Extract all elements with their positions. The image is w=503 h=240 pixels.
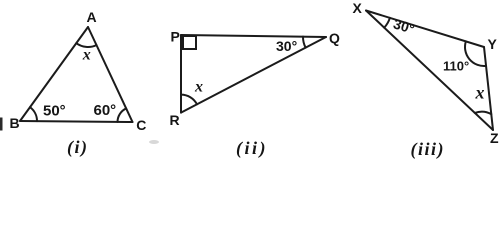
angle arc at Q [303,37,306,48]
svg-text:30°: 30° [391,15,416,36]
triangle (ii) side PQ [181,35,326,37]
svg-text:Z: Z [490,130,499,146]
scan artifact smudge right of caption (i) [149,140,159,144]
svg-text:x: x [82,47,91,64]
svg-text:60°: 60° [94,102,117,119]
svg-text:110°: 110° [443,59,469,74]
svg-text:(iii): (iii) [411,139,446,160]
svg-text:(i): (i) [67,137,89,158]
svg-text:P: P [171,29,180,45]
triangle (iii) side YZ [484,47,493,130]
svg-text:Q: Q [329,30,340,46]
triangle (iii) side XZ [366,11,493,131]
svg-text:x: x [194,79,203,96]
svg-text:X: X [353,0,363,16]
scan artifact mark at left edge [0,118,3,131]
svg-text:(ii): (ii) [236,138,268,159]
svg-text:R: R [170,112,180,128]
triangle (iii) side XY [366,11,484,48]
triangle (ii) side RQ [181,37,326,113]
svg-text:Y: Y [488,36,498,52]
svg-text:A: A [87,9,97,25]
angle arc at A [76,43,96,47]
angle arc at Y [465,41,486,66]
right angle square at P [183,36,196,49]
angle arc at B [30,107,37,121]
angle arc at R [181,95,197,105]
angle arc at C [118,108,127,121]
svg-text:x: x [475,83,485,103]
svg-text:50°: 50° [43,103,66,120]
svg-text:30°: 30° [276,38,297,54]
angle arc at X [384,18,390,28]
triangle (i) side AB [20,27,88,121]
svg-text:C: C [136,117,146,133]
triangle (i) side AC [88,27,133,122]
triangle (i) side BC [20,121,133,122]
triangle (ii) side PR [180,35,182,113]
svg-text:B: B [10,115,20,131]
angle arc at Z [475,112,492,114]
